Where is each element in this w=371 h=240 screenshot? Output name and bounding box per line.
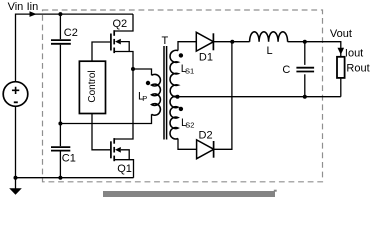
svg-text:Rout: Rout <box>346 63 369 75</box>
svg-text:L: L <box>267 45 273 57</box>
svg-text:D2: D2 <box>199 129 213 141</box>
svg-text:D1: D1 <box>199 52 213 64</box>
svg-text:C: C <box>282 64 290 76</box>
svg-text:Q2: Q2 <box>113 18 128 30</box>
svg-text:Iin: Iin <box>27 1 39 13</box>
svg-text:P: P <box>142 94 147 103</box>
svg-text:Iout: Iout <box>345 47 363 59</box>
svg-text:S2: S2 <box>185 121 194 130</box>
svg-text:Q1: Q1 <box>117 163 132 175</box>
svg-text:Control: Control <box>87 70 98 102</box>
svg-text:T: T <box>162 35 169 47</box>
svg-text:Vin: Vin <box>8 1 24 13</box>
svg-text:S1: S1 <box>185 66 194 75</box>
svg-text:C1: C1 <box>62 153 76 165</box>
svg-text:Vout: Vout <box>330 28 352 40</box>
svg-text:C2: C2 <box>64 27 78 39</box>
